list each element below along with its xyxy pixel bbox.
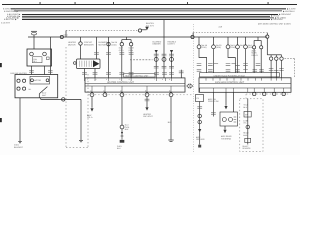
wire second feed [233, 92, 235, 112]
dashed boundary through connector row [88, 94, 192, 96]
fuse G1 circle [197, 45, 201, 49]
dashed component box right [240, 99, 263, 152]
svg-text:UNDER-HOOD FUSE/RELAY BOX: UNDER-HOOD FUSE/RELAY BOX [214, 74, 246, 77]
relay pair bracket [254, 40, 261, 42]
connector on left branch 1 [198, 114, 202, 118]
svg-text:YEL A: YEL A [87, 116, 93, 119]
fuse drop G3 [227, 37, 229, 45]
wire motor out 2 [94, 69, 96, 78]
fuse F4 circle [120, 43, 123, 46]
connector C1 on feed wire [60, 35, 63, 38]
svg-text:SENSOR: SENSOR [242, 147, 251, 150]
sensor trio connector 1 [269, 57, 272, 60]
switch S2 terminal 2 [229, 118, 233, 122]
ground wire right leg [80, 99, 82, 140]
svg-text:▶ WHT/BLU: ▶ WHT/BLU [283, 10, 295, 13]
fuse F1 wire lower [80, 45, 82, 59]
svg-text:4WS MAIN CONTROL UNIT: 4WS MAIN CONTROL UNIT [215, 81, 245, 84]
svg-text:B WHT/GRN ▶─: B WHT/GRN ▶─ [4, 10, 20, 13]
svg-text:(10A): (10A) [112, 43, 117, 46]
fuse F5 wire lower [130, 46, 132, 78]
switch lever [39, 87, 47, 94]
strip2 divider upper [199, 83, 291, 85]
connector on wire c [120, 125, 124, 129]
strip1 output connector b [103, 93, 107, 97]
strip2 output connector row 2 [263, 92, 266, 95]
svg-text:▶ GRN/WHT: ▶ GRN/WHT [279, 13, 292, 16]
wire color tick labels mid trio [94, 53, 174, 68]
fuse G4 circle [236, 45, 240, 49]
connector ring A [154, 57, 158, 61]
svg-text:A/C SYS: A/C SYS [146, 24, 155, 27]
fuse box callout label box [200, 73, 280, 77]
relay inner label box [32, 57, 42, 63]
page split dotted line [193, 24, 195, 152]
off-page arrow (to A/C) [145, 27, 149, 30]
strip1 output connector d [145, 93, 149, 97]
junction dot wire c [121, 132, 123, 134]
svg-text:ML: ML [29, 88, 32, 91]
relay pair connector left [253, 46, 256, 49]
ground tick wire e [168, 139, 173, 141]
strip1 pin ticks bottom [92, 86, 171, 92]
svg-text:DIMMER: DIMMER [153, 43, 162, 46]
off-page arrow C [170, 50, 173, 53]
dashed harness boundary bottom [66, 146, 88, 148]
ground tick small [121, 135, 124, 137]
svg-text:(10A): (10A) [129, 49, 134, 52]
heater fan switch box [15, 75, 58, 98]
svg-text:BLU: BLU [243, 106, 247, 109]
svg-text:PRESS SW: PRESS SW [208, 100, 219, 103]
wire c down [121, 97, 123, 126]
svg-text:MOTOR: MOTOR [68, 43, 76, 46]
ground tick G101 lower [19, 142, 21, 144]
connector C5 on feed wire right [266, 35, 269, 38]
switch terminal circle 4 [23, 87, 26, 90]
strip1 output stub d [146, 91, 148, 94]
dashed harness boundary left [65, 47, 67, 147]
sensor trio stub 1 up [270, 55, 272, 57]
svg-text:(10A): (10A) [202, 46, 207, 49]
connector C3 on output wire [62, 98, 65, 101]
sensor trio wire 3 [281, 60, 283, 78]
strip1 divider upper [85, 82, 185, 84]
wires from fuses into control unit [199, 49, 246, 73]
fuse drop F3 wire [108, 37, 110, 78]
strip2 output connector row 1 [253, 92, 256, 95]
contact marks in switch box [234, 117, 237, 122]
dashed reference wire right [193, 32, 266, 34]
svg-text:LIGHTS: LIGHTS [168, 43, 176, 46]
sensor trio stub 2 up [275, 55, 277, 57]
wire d down [146, 97, 148, 107]
wire C5 down [266, 38, 268, 55]
fuse F5 circle [129, 43, 132, 46]
switch inner block [30, 76, 50, 84]
svg-text:4WS MAIN CONTROL UNIT (CONT): 4WS MAIN CONTROL UNIT (CONT) [258, 23, 291, 26]
end blob left branch [198, 145, 201, 148]
fuse drop G1 [198, 37, 200, 45]
relay pair right leg upper [260, 41, 262, 46]
motor terminal circle [74, 62, 77, 65]
bus wire 2 [11, 8, 286, 10]
tick marker on bus line 1 [267, 2, 270, 4]
fuse drop G4 [237, 37, 239, 45]
svg-text:SW LIGHT: SW LIGHT [143, 115, 153, 118]
svg-text:MOTOR: MOTOR [99, 43, 107, 46]
wire below switch box [224, 126, 226, 130]
inner block terminal 2 [46, 79, 49, 82]
tick labels on left branch [197, 107, 202, 109]
fuse F5 wire [130, 40, 132, 43]
strip1 output connector c [120, 93, 124, 97]
strip1 divider lower [85, 85, 185, 87]
inner block terminal 1 [31, 79, 34, 82]
relay pair stem [257, 37, 259, 41]
component box inside dashed box [245, 138, 251, 142]
sensor trio wire 1 [270, 60, 272, 78]
wire e down [170, 97, 172, 140]
trio bracket [267, 54, 281, 56]
bus wire 6 [22, 17, 274, 19]
wire stub into strip1 [180, 70, 182, 78]
svg-text:STEERING: STEERING [221, 137, 232, 140]
ground wire from switch [19, 98, 21, 141]
relay pair left leg upper [253, 41, 255, 46]
dashed boundary segment [130, 59, 153, 61]
main feed wire (horizontal) [28, 36, 267, 38]
strip2 divider lower [199, 87, 291, 89]
relay pair right leg [260, 49, 262, 73]
wire fuse to relay [33, 35, 35, 49]
switch box S2 [220, 112, 238, 126]
page continuation arrow (double) [187, 84, 193, 88]
ground tick G101 [18, 140, 22, 142]
motor arrow [93, 60, 99, 67]
connector ring B [162, 57, 166, 61]
connector C2 on dashed wire [138, 29, 141, 32]
tick marker on bus line 1 [74, 2, 77, 4]
strip2 output connector row 4 [282, 92, 285, 95]
strip1 title callout box [124, 73, 156, 77]
svg-text:MAIN: MAIN [243, 134, 248, 137]
fuse symbol body [32, 33, 37, 35]
switch S2 terminal 1 [222, 118, 226, 122]
fuse drop G5 [245, 37, 247, 45]
wire relay terminal 2 down [44, 66, 46, 75]
bus wire 4 [22, 14, 278, 16]
svg-text:BLK: BLK [168, 121, 172, 124]
wire drop from bus 7 [163, 19, 165, 78]
svg-text:HEATER CONTROL UNIT: HEATER CONTROL UNIT [125, 74, 149, 77]
dashed harness boundary right [87, 74, 89, 147]
dashed link vertical [294, 59, 296, 78]
strip2 pin ticks top [206, 78, 282, 81]
fuse pair bracket stem [126, 37, 128, 40]
svg-text:B BLU/YEL ▶: B BLU/YEL ▶ [4, 18, 17, 21]
relay terminal circle 1 [30, 52, 34, 56]
sensor trio wire 2 [275, 60, 277, 78]
arrow wire oil press sw [224, 106, 227, 109]
fuse drop F1 wire [80, 37, 82, 42]
wire inside dashed box [247, 99, 249, 145]
svg-text:▶ GRN/WHT: ▶ GRN/WHT [271, 18, 284, 21]
wire color ticks row 2 [197, 69, 284, 72]
fuse G5 circle [244, 45, 248, 49]
motor hatch [80, 61, 92, 67]
wire relay to fan switch (right leg) [50, 37, 52, 75]
svg-text:RELAY: RELAY [252, 54, 259, 57]
fuse G2 circle [212, 45, 216, 49]
strip1 output stub a [91, 91, 93, 94]
svg-text:(10A): (10A) [216, 46, 221, 49]
fuse F3 circle [107, 43, 110, 46]
switch terminal circle 3 [17, 87, 20, 90]
ground tick wire e lower [170, 140, 173, 142]
wire relay terminal 1 down [31, 66, 33, 75]
tick labels on stub [211, 113, 216, 115]
svg-text:BREAKER: BREAKER [84, 43, 94, 46]
strip1 pin ticks top [85, 78, 172, 81]
tick marker on bus line 1 [112, 2, 115, 4]
svg-text:(10A): (10A) [119, 49, 124, 52]
fuse drop F2 wire [96, 37, 98, 59]
fuse F1 circle [79, 42, 82, 45]
svg-text:HEATER CONTROL UNIT: HEATER CONTROL UNIT [107, 81, 135, 84]
relay terminal circle 2 [43, 52, 47, 56]
strip2 pin ticks bottom [200, 88, 284, 92]
wire motor out 1 [84, 69, 86, 78]
sensor trio connector 2 [275, 57, 278, 60]
bus wire 3 [14, 10, 282, 12]
small box under strip2 [196, 95, 204, 102]
strip1 output connector e [169, 93, 173, 97]
wire a down [91, 97, 93, 108]
svg-text:YEL: YEL [243, 122, 247, 125]
switch lever pivot wire [38, 94, 40, 98]
switch terminal circle 2 [23, 79, 26, 82]
dashed connector-row line right [246, 93, 291, 95]
wire oil press sw [225, 92, 227, 106]
riser wire to dashed reference [65, 31, 67, 38]
svg-text:MOTOR: MOTOR [34, 79, 42, 82]
connector C4 on feed wire [191, 35, 194, 38]
wire stub to off-page arrow [142, 29, 147, 31]
off-page arrow wire d [145, 107, 148, 110]
fuse F4 wire lower [121, 46, 123, 78]
switch terminal circle 1 [17, 79, 20, 82]
wire switch output right [41, 98, 81, 100]
ground tick G2 lower [80, 141, 82, 143]
blower relay R1 box [27, 49, 52, 66]
svg-text:BLK/WHT: BLK/WHT [14, 146, 24, 149]
sensor box inside dashed box [244, 111, 251, 117]
wire c lower [121, 129, 123, 140]
blower motor M1 box [77, 59, 101, 69]
relay pair connector right [260, 46, 263, 49]
4WS control unit U2 connector strip [199, 78, 291, 93]
off-page arrow below box [223, 130, 226, 133]
relay pair left leg [253, 49, 255, 73]
strip1 output stub c [121, 91, 123, 94]
strip1 output stub e [170, 91, 172, 94]
fuse F4 wire [121, 40, 123, 43]
wire sensor C [171, 53, 173, 78]
tick label wire d [145, 99, 150, 101]
tick labels below relay [29, 71, 52, 73]
sensor trio stub 3 up [281, 55, 283, 57]
strip2 output connector row 3 [273, 92, 276, 95]
binder mark upper [0, 63, 2, 67]
dashed corner down from connector row [245, 94, 247, 99]
svg-text:C552: C552 [64, 33, 68, 36]
wire sensor A [155, 53, 157, 78]
relay side contact mark [47, 57, 50, 60]
wire color ticks row 1 [197, 64, 284, 72]
ground tick G2 [79, 139, 83, 141]
off-page arrow wire a [90, 108, 93, 111]
sensor trio connector 3 [280, 57, 283, 60]
dashed reference wire [66, 30, 138, 32]
fuse symbol at feed (bars) [31, 30, 37, 32]
svg-text:SENSOR: SENSOR [196, 138, 205, 141]
svg-text:A-16 HTR: A-16 HTR [1, 22, 10, 25]
svg-text:(15A): (15A) [231, 46, 236, 49]
wire left branch [199, 102, 201, 145]
bus wire 5 [22, 15, 270, 17]
stub wire mid with ticks [212, 92, 214, 116]
off-page arrow left branch [198, 129, 201, 132]
connector ring C [170, 57, 174, 61]
strip1 output connector a [90, 93, 94, 97]
tick marker on bus line 1 [186, 2, 189, 4]
connector on left branch 2 [198, 120, 202, 124]
fuse G3 circle [226, 45, 230, 49]
riser dashed ref to connector [266, 33, 268, 35]
riser dashed ref left [192, 33, 194, 36]
strip1 output stub b [104, 91, 106, 94]
fuse drop G2 [213, 37, 215, 45]
dashed link horizontal [285, 58, 295, 60]
wire switch output down [40, 98, 42, 100]
binder mark lower [0, 118, 2, 122]
connector inside dashed box [246, 125, 250, 129]
heater control unit U1 connector strip [85, 78, 185, 92]
off-page arrow A [155, 50, 158, 53]
fuse pair bracket [122, 39, 131, 41]
bus wire 7 [22, 19, 270, 21]
bus line 1 (page top rule) [2, 4, 297, 6]
tick marker on bus line 1 [39, 2, 42, 4]
ground G401 block [120, 140, 125, 143]
wire color tick labels above strip1 [82, 71, 184, 74]
